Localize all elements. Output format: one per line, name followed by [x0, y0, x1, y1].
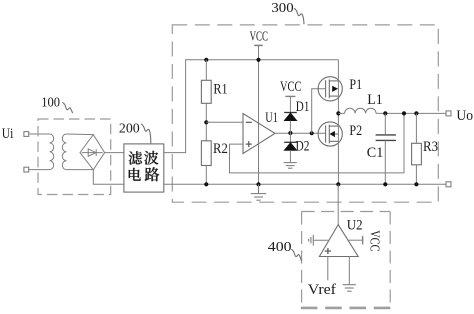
transistor P2 arrow	[330, 131, 335, 137]
transistor P1	[318, 77, 342, 101]
node dot	[336, 182, 340, 186]
svg-text:P2: P2	[349, 123, 362, 139]
wire R3 bottom	[415, 165, 417, 185]
wire C1 top	[384, 113, 386, 134]
svg-text:300: 300	[271, 1, 293, 16]
svg-text:D2: D2	[296, 138, 310, 154]
ground main rail	[251, 184, 266, 200]
wire R3 top	[415, 113, 417, 143]
bridge rectifier diamond	[80, 135, 105, 170]
svg-text:U1: U1	[265, 110, 278, 126]
op-amp U2	[319, 225, 358, 257]
wire	[66, 133, 93, 136]
op-amp U2 plus	[325, 248, 331, 254]
svg-text:200: 200	[119, 121, 140, 136]
capacitor C1	[376, 135, 396, 141]
node dot	[204, 120, 208, 124]
wire to U1 inverting input	[206, 121, 243, 123]
ground U2	[343, 285, 356, 292]
node dot	[256, 182, 260, 186]
lead squiggle 300	[294, 8, 304, 24]
wire	[29, 133, 50, 135]
wire R1 bottom	[205, 103, 207, 141]
svg-text:U2: U2	[347, 218, 363, 234]
node dot	[288, 131, 292, 135]
svg-text:400: 400	[268, 240, 292, 255]
filter text 波	[144, 151, 158, 165]
node dot	[256, 58, 260, 62]
svg-text:L1: L1	[367, 92, 383, 108]
resistor R3	[412, 143, 422, 165]
node dot	[402, 111, 406, 115]
wire output row	[338, 112, 344, 114]
wire C1 bottom	[384, 140, 386, 184]
wire	[66, 169, 93, 171]
node dot	[383, 182, 387, 186]
op-amp U1	[243, 114, 275, 154]
wire U2 ground lead	[348, 257, 350, 285]
wire output row right	[376, 112, 446, 114]
wire D2 to ground	[289, 150, 291, 162]
ground rotated U2 left	[309, 235, 314, 246]
power VCC diode tick	[285, 95, 295, 97]
svg-text:C1: C1	[367, 145, 384, 161]
transformer T1 secondary	[62, 134, 66, 170]
svg-text:VCC: VCC	[280, 79, 301, 95]
svg-text:P1: P1	[349, 77, 362, 93]
node dot	[204, 58, 208, 62]
wire R2 bottom	[205, 166, 207, 185]
wire	[105, 152, 124, 154]
wire R1 top	[205, 60, 207, 81]
svg-text:VCC: VCC	[250, 28, 268, 43]
terminal Ui+	[24, 132, 29, 137]
dashed block 100	[38, 119, 111, 195]
wire VCC to D1	[289, 96, 291, 112]
node dot	[204, 182, 208, 186]
wire U2 Vref lead	[327, 257, 329, 281]
svg-text:Ui: Ui	[2, 126, 14, 142]
transistor P2	[318, 122, 342, 146]
lead squiggle 400	[291, 249, 301, 261]
transistor P1 arrow	[332, 86, 338, 92]
terminal Ui-	[24, 167, 29, 172]
wire U1 plus input feedback	[230, 113, 405, 172]
node dot	[414, 111, 418, 115]
svg-text:R3: R3	[423, 139, 438, 155]
svg-text:Vref: Vref	[308, 282, 336, 298]
inductor L1	[345, 108, 377, 113]
wire VCC drop	[258, 45, 260, 184]
op-amp U1 plus	[246, 141, 252, 147]
filter text 滤	[129, 151, 143, 164]
wire drain column	[337, 60, 339, 185]
ground below D2	[284, 163, 297, 169]
wire	[93, 170, 124, 185]
node dot	[310, 131, 314, 135]
svg-text:D1: D1	[296, 99, 310, 115]
wire U2 left input	[313, 239, 329, 241]
filter text 路	[145, 167, 160, 181]
dashed block 300	[172, 25, 438, 202]
wire U2 VCC	[347, 239, 362, 241]
power VCC main tick	[254, 44, 262, 46]
wire U1 output row	[275, 132, 326, 134]
wire	[29, 169, 50, 171]
svg-text:Uo: Uo	[456, 107, 473, 124]
power VCC U2 tick	[362, 236, 364, 245]
terminal out-	[446, 182, 451, 187]
node dot	[414, 182, 418, 186]
lead squiggle 100	[62, 102, 72, 113]
resistor R1	[201, 80, 211, 103]
svg-text:R1: R1	[213, 81, 227, 97]
wire bottom rail	[164, 183, 446, 185]
wire to U2	[337, 184, 339, 224]
filter text 电	[129, 168, 141, 181]
node dot	[383, 111, 387, 115]
bridge inner diode	[82, 149, 103, 156]
filter block 200 box	[124, 144, 164, 192]
wire D1 to node	[289, 121, 291, 143]
svg-text:VCC: VCC	[366, 230, 381, 251]
diode D2	[284, 142, 297, 150]
lead squiggle 200	[141, 124, 151, 143]
op-amp U1 minus	[246, 121, 252, 123]
wire filter to top rail	[164, 60, 339, 153]
transformer T1 primary	[50, 134, 54, 170]
svg-text:100: 100	[41, 95, 60, 110]
diode D1	[284, 113, 297, 121]
wire gate riser	[312, 89, 326, 133]
resistor R2	[201, 141, 211, 166]
node dot	[336, 111, 340, 115]
terminal Uo	[446, 111, 451, 116]
svg-text:R2: R2	[213, 141, 228, 157]
dashed block 400	[301, 212, 391, 308]
